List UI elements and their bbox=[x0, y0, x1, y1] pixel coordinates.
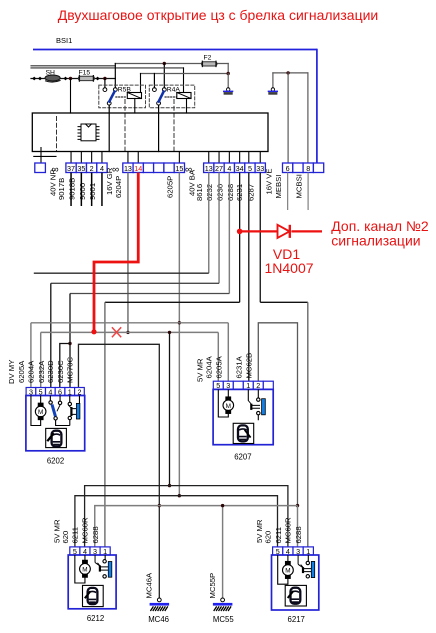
wire vertical linking rails A-D and R5B right contact bbox=[114, 64, 116, 88]
svg-text:6231A: 6231A bbox=[235, 355, 244, 378]
wire end diamonds on rail D bbox=[32, 77, 99, 81]
6207 wire labels bbox=[196, 353, 254, 382]
wire 6287 drop to 6217 pin 1 bbox=[307, 302, 309, 547]
svg-text:9001: 9001 bbox=[88, 183, 97, 200]
svg-text:8: 8 bbox=[306, 164, 310, 173]
svg-text:6230: 6230 bbox=[216, 184, 225, 201]
wire 6287 vertical bbox=[259, 173, 261, 303]
svg-text:6232: 6232 bbox=[205, 184, 214, 201]
relay R4A actuation dotted line bbox=[165, 96, 177, 98]
relay R5B actuation dotted line bbox=[116, 96, 127, 98]
6212 body box bbox=[68, 555, 116, 609]
wire 6288 horizontal bbox=[105, 301, 240, 303]
svg-text:MC46: MC46 bbox=[148, 615, 169, 624]
wire rail D drop into BSI box bbox=[70, 79, 72, 114]
svg-text:40V NR: 40V NR bbox=[48, 169, 57, 196]
svg-text:6204P: 6204P bbox=[114, 176, 123, 198]
svg-text:14: 14 bbox=[134, 164, 142, 173]
svg-text:15: 15 bbox=[175, 164, 183, 173]
svg-text:F2: F2 bbox=[204, 54, 212, 61]
svg-text:9018B: 9018B bbox=[68, 178, 77, 200]
svg-text:9000: 9000 bbox=[78, 183, 87, 200]
wire 6232A drop to 6202 pin 4 bbox=[50, 283, 52, 387]
6202 lock motor bbox=[31, 396, 46, 426]
node MC62B joins MC60R rail bbox=[296, 504, 299, 507]
wire R5B arm to BSI box bbox=[108, 105, 110, 151]
svg-text:6204A: 6204A bbox=[27, 360, 36, 383]
svg-text:MCBSI: MCBSI bbox=[294, 174, 303, 198]
svg-text:13: 13 bbox=[205, 164, 213, 173]
svg-text:DV MY: DV MY bbox=[7, 360, 16, 384]
svg-text:33: 33 bbox=[256, 164, 264, 173]
svg-text:6212: 6212 bbox=[87, 614, 104, 623]
relay R5B coil bbox=[127, 93, 141, 99]
wire stub 9001 bbox=[101, 173, 103, 207]
wire 6230D branch to 6202 pin 6 bbox=[60, 344, 70, 388]
node red wire joins 6204A line bbox=[91, 329, 96, 334]
wire MC60R rail bbox=[95, 506, 298, 547]
6217 car pictogram bbox=[285, 585, 306, 606]
wire 6204P (BSI 13) down to junction bbox=[127, 173, 129, 333]
wire 8616 vertical bbox=[208, 173, 210, 274]
wire tap 6204A to 6211 rail bbox=[169, 332, 171, 485]
wire rail B2 y=65.8 bbox=[31, 65, 115, 67]
svg-text:MC62B: MC62B bbox=[244, 353, 253, 379]
wire rail B y=67.9 (to R4A coil) bbox=[31, 67, 184, 69]
svg-text:6288: 6288 bbox=[91, 526, 100, 543]
node 6204P joins 6204A line bbox=[126, 331, 129, 334]
svg-text:сигнализации: сигнализации bbox=[331, 232, 420, 248]
node diode line on wire 6288 bbox=[237, 229, 243, 235]
relay R5B contacts bbox=[103, 88, 107, 92]
node 6230 branch bbox=[68, 342, 71, 345]
wire rail A drop at right to node on rail C bbox=[227, 64, 229, 74]
svg-text:5: 5 bbox=[248, 164, 252, 173]
BSI inner electronics box bbox=[32, 113, 268, 152]
wire 6287 horizontal bbox=[260, 301, 308, 303]
wire 8616 horizontal to left (open end) bbox=[34, 272, 209, 274]
svg-text:6230C: 6230C bbox=[56, 360, 65, 383]
wire 6205A rail bbox=[31, 322, 228, 324]
BSI internal ground 1 bbox=[227, 88, 230, 91]
relay R4A dashed box bbox=[149, 85, 194, 108]
svg-text:6205A: 6205A bbox=[214, 355, 223, 378]
wire 6230 vertical bbox=[228, 173, 230, 294]
wire 6288 drop to 6212 pin 1 bbox=[104, 302, 106, 547]
wire 6232 horizontal bbox=[51, 282, 219, 284]
BSI1 blue frame top line bbox=[33, 49, 317, 51]
svg-text:9017B: 9017B bbox=[57, 178, 66, 200]
wire 6211 rail (6212 pin 4 to 6217 pin 4) bbox=[85, 486, 288, 547]
svg-text:M: M bbox=[38, 409, 43, 416]
svg-text:16V VE: 16V VE bbox=[265, 168, 274, 194]
BSI internal dashed links bbox=[56, 117, 58, 152]
BSI ground 2 (MEBSI/MCBSI rail) bbox=[273, 72, 308, 74]
svg-text:4: 4 bbox=[100, 164, 104, 173]
BSI inner box lower-left ledge bbox=[34, 155, 56, 157]
relay R5B dashed box bbox=[99, 85, 146, 108]
svg-text:6204A: 6204A bbox=[204, 355, 213, 378]
svg-text:620: 620 bbox=[61, 531, 70, 544]
wire stub 9000 bbox=[91, 173, 93, 207]
6207 body box bbox=[213, 389, 273, 444]
ground MC46 bbox=[157, 598, 161, 602]
6212 wire labels bbox=[53, 517, 100, 544]
node on rail A feeding R4A right contact bbox=[163, 62, 166, 65]
wire stub MEBSI bbox=[287, 173, 289, 211]
6212 lock motor bbox=[75, 555, 91, 583]
svg-text:MC46A: MC46A bbox=[145, 572, 154, 599]
svg-text:MC60R: MC60R bbox=[283, 517, 292, 544]
BSI microcontroller chip bbox=[78, 124, 99, 141]
fuse-wire rail D y=78.5 bbox=[31, 78, 115, 80]
wire R5B coil bottom to BSI box bbox=[134, 99, 136, 114]
wire 6288 vertical (diode tap) bbox=[239, 173, 241, 303]
svg-text:8616: 8616 bbox=[195, 184, 204, 201]
wire R4A coil bottom to BSI box bbox=[186, 99, 188, 114]
relay R4A contacts bbox=[153, 88, 157, 92]
6202 lock switch B with blue rod bbox=[68, 396, 79, 426]
ground MC55 bbox=[221, 598, 225, 602]
wire rail A (F2 feed) y=63.5 bbox=[115, 63, 228, 65]
node rail C / ground drop bbox=[227, 72, 230, 75]
wire 6205P (BSI 15) down through 6205A line to 620 rail bbox=[178, 173, 180, 496]
wire 6230C drop to 6202 pin 1 bbox=[69, 294, 71, 388]
wire 6231 (BSI to 6207 pin 1) bbox=[248, 173, 250, 382]
svg-text:6205A: 6205A bbox=[17, 360, 26, 383]
6202 lock switch A bbox=[49, 396, 70, 426]
connector group 2 boxes 13 14 _ _ _ 15 bbox=[123, 163, 133, 173]
6207 lock motor bbox=[218, 389, 233, 417]
6202 car pictogram bbox=[46, 428, 67, 447]
wire 620 rail (6212 pin 5 to 6217 pin 5) bbox=[75, 496, 278, 547]
svg-text:F15: F15 bbox=[79, 70, 91, 77]
relay R4A blue arm bbox=[159, 92, 164, 102]
wire stub 9018B bbox=[80, 173, 82, 207]
svg-text:6232A: 6232A bbox=[37, 360, 46, 383]
6202 switch A blue bar bbox=[52, 405, 55, 417]
6212 lock switch with blue rod bbox=[95, 555, 108, 578]
wire 6232 vertical bbox=[218, 173, 220, 284]
node tap bottom bbox=[168, 484, 171, 487]
node MC70C joins MC60R rail bbox=[158, 504, 161, 507]
wire from rail A down to R4A right contact bbox=[163, 64, 165, 88]
svg-text:13: 13 bbox=[124, 164, 132, 173]
svg-text:4: 4 bbox=[227, 164, 231, 173]
wire rail B drop to R4A coil top bbox=[183, 68, 185, 93]
svg-text:6205P: 6205P bbox=[166, 176, 175, 198]
svg-text:6207: 6207 bbox=[234, 452, 251, 461]
wire rail C tap up from R4A left contact bbox=[153, 74, 155, 88]
6202 pin boxes 3 5 4 6 1 2 bbox=[26, 388, 84, 396]
wire MEBSI vertical (pin 6) bbox=[287, 73, 289, 163]
wire 6230 horizontal bbox=[70, 293, 229, 295]
6207 lock switch with blue rod bbox=[248, 389, 260, 420]
6212 pin boxes 5 4 3 1 bbox=[70, 547, 110, 555]
svg-text:35: 35 bbox=[77, 164, 85, 173]
wire stub MCBSI bbox=[307, 173, 309, 211]
svg-text:6288: 6288 bbox=[294, 526, 303, 543]
wire 6205A drop to 6202 pin 3 bbox=[30, 323, 32, 388]
svg-text:M: M bbox=[82, 566, 87, 573]
svg-text:BSI1: BSI1 bbox=[56, 36, 72, 45]
svg-text:M: M bbox=[226, 403, 231, 410]
svg-text:6288: 6288 bbox=[226, 184, 235, 201]
6217 wire labels bbox=[255, 517, 303, 544]
wire stub 9017B bbox=[70, 173, 72, 207]
cut mark X on 6204A wire bbox=[112, 327, 121, 337]
wire drop to R5B left contact bbox=[104, 79, 106, 88]
6207 car pictogram bbox=[233, 423, 254, 443]
wire 6204A drop to 6202 pin 5 bbox=[40, 332, 42, 387]
svg-text:MC55P: MC55P bbox=[208, 573, 217, 599]
6217 body box bbox=[272, 555, 319, 610]
connector group 3 boxes 13 27 4 34 5 33 bbox=[204, 163, 214, 173]
wire 6205A drop to 6207 pin 3 bbox=[227, 323, 229, 381]
wire MC55P tap from MC60R rail to ground MC55 bbox=[222, 506, 224, 598]
svg-text:34: 34 bbox=[236, 164, 244, 173]
svg-text:MEBSI: MEBSI bbox=[274, 175, 283, 199]
connector pin ticks from BSI box bbox=[41, 147, 260, 163]
6217 lock switch with blue rod bbox=[298, 555, 311, 578]
node tap top bbox=[168, 331, 171, 334]
wire drop to internal ground 2 bbox=[272, 73, 274, 88]
svg-text:620: 620 bbox=[264, 531, 273, 544]
wire MC70C from 6202 pin 2 up and over to ground MC46 bbox=[78, 344, 159, 598]
node 6205P joins 620 rail bbox=[178, 494, 181, 497]
pin numbers bbox=[67, 164, 310, 173]
wire 6204A rail bbox=[41, 331, 219, 333]
svg-text:6211: 6211 bbox=[274, 527, 283, 544]
6217 pin boxes 5 4 3 1 bbox=[273, 547, 314, 555]
node on rail D to R5B left contact bbox=[103, 77, 106, 80]
connector group 1 boxes 37 35 2 4 bbox=[66, 163, 76, 173]
svg-text:6230D: 6230D bbox=[46, 360, 55, 383]
svg-text:MC70C: MC70C bbox=[65, 356, 74, 383]
svg-text:6217: 6217 bbox=[288, 615, 305, 624]
relay R4A coil bbox=[177, 93, 191, 99]
svg-text:MC55: MC55 bbox=[213, 615, 234, 624]
wire group labels bbox=[48, 167, 303, 201]
node 6205P joins 6205A line bbox=[178, 321, 181, 324]
svg-text:M: M bbox=[285, 568, 290, 575]
red alarm wire from BSI pin 14 bbox=[94, 173, 138, 332]
svg-text:27: 27 bbox=[215, 164, 223, 173]
svg-text:MC60R: MC60R bbox=[81, 517, 90, 544]
6212 car pictogram bbox=[83, 585, 104, 606]
connector box left bbox=[35, 163, 46, 173]
relay R5B blue arm bbox=[109, 92, 114, 102]
6202 body box bbox=[26, 396, 85, 451]
wire ground drop from rail C bbox=[227, 74, 229, 89]
connector squiggle symbols bbox=[52, 165, 193, 176]
diode VD1 symbol bbox=[278, 225, 290, 238]
wire MC62B from 6207 pin 2 up, over and down to MC60R rail bbox=[258, 323, 297, 506]
6207 pin boxes 5 3 _ 1 2 _ bbox=[213, 381, 273, 389]
wire rail C y=73.5 bbox=[141, 73, 229, 75]
node MC55P tap bbox=[221, 504, 224, 507]
wire MC60R drop to 6217 pin 3 bbox=[297, 506, 299, 547]
svg-text:6211: 6211 bbox=[71, 527, 80, 544]
BSI1 blue frame right edge bbox=[316, 49, 318, 163]
svg-text:37: 37 bbox=[67, 164, 75, 173]
svg-text:2: 2 bbox=[90, 164, 94, 173]
svg-text:1N4007: 1N4007 bbox=[264, 260, 313, 276]
wire rail C drop to R5B coil top bbox=[140, 74, 142, 93]
svg-text:6202: 6202 bbox=[47, 457, 64, 466]
svg-text:6: 6 bbox=[286, 164, 290, 173]
wire MCBSI vertical (pin 8) bbox=[307, 73, 309, 163]
node on rail D to BSI box bbox=[69, 77, 72, 80]
6217 lock motor bbox=[278, 555, 294, 584]
svg-text:Двухшаговое открытие цз с брел: Двухшаговое открытие цз с брелка сигнали… bbox=[58, 7, 379, 23]
6202 wire labels bbox=[7, 356, 75, 384]
wire 6204A drop to 6207 pin 5 bbox=[217, 332, 219, 381]
svg-text:6287: 6287 bbox=[246, 184, 255, 201]
svg-text:16V GR: 16V GR bbox=[105, 167, 114, 195]
connector group 4 boxes 6 _ 8 _ bbox=[283, 163, 293, 173]
red diode feed line bbox=[240, 230, 322, 232]
wire R4A arm to BSI box bbox=[158, 105, 160, 151]
